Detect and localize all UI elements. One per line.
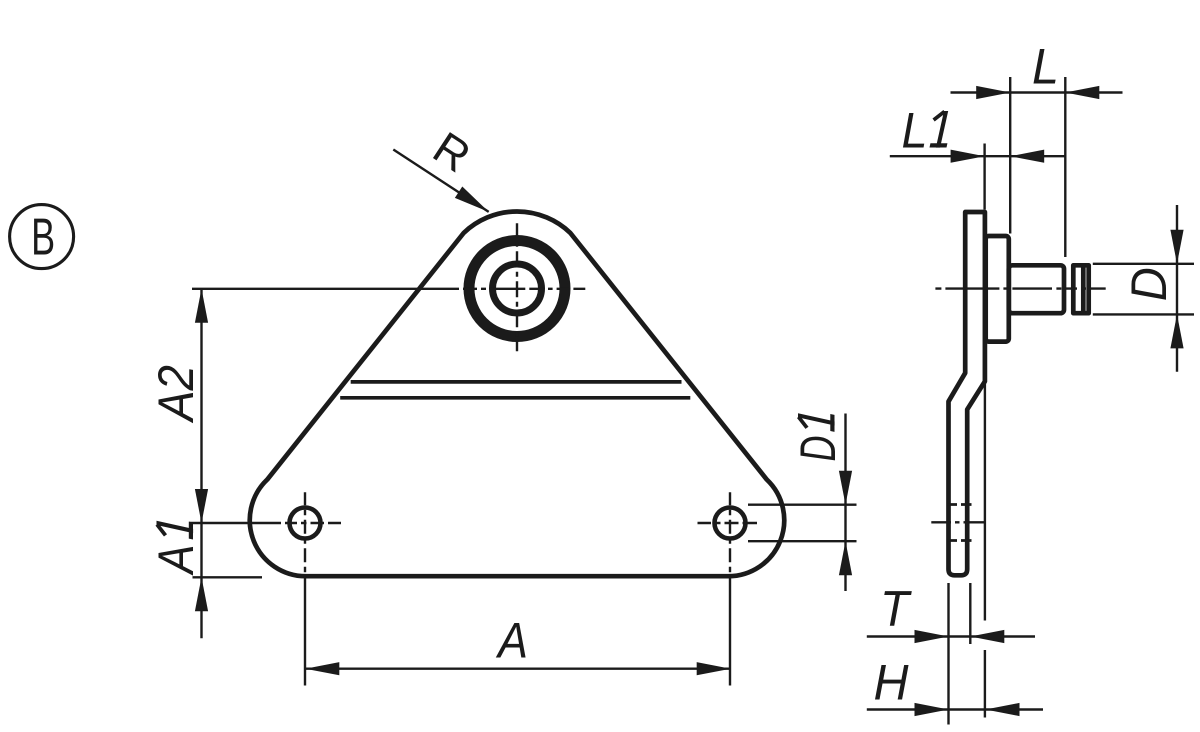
svg-text:L: L xyxy=(1032,38,1059,94)
svg-text:L: L xyxy=(902,103,928,159)
svg-text:A2: A2 xyxy=(148,365,204,424)
svg-text:H: H xyxy=(874,654,910,710)
svg-text:A: A xyxy=(495,613,528,669)
svg-text:D: D xyxy=(1121,267,1177,301)
svg-text:B: B xyxy=(31,208,55,266)
svg-text:D: D xyxy=(790,436,846,462)
svg-text:A: A xyxy=(148,545,204,577)
svg-text:T: T xyxy=(880,580,912,636)
